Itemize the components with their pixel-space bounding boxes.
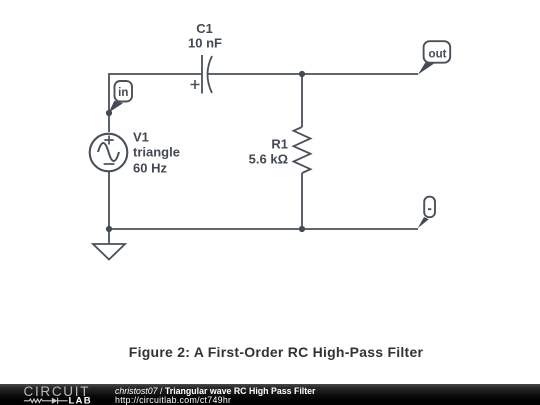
svg-text:C1: C1: [196, 21, 213, 36]
junction node dots: [106, 71, 305, 232]
flag: out: [418, 41, 450, 74]
wire: resistor branch bottom: [301, 173, 303, 229]
node: resistor top: [299, 71, 305, 77]
voltage source V1: [90, 134, 128, 172]
footer bar: [0, 384, 540, 405]
svg-text:60 Hz: 60 Hz: [133, 160, 167, 175]
capacitor C1: [191, 55, 213, 94]
wire: resistor branch top: [301, 74, 303, 127]
flag: in: [109, 81, 132, 113]
node: ground junction: [106, 226, 112, 232]
node: resistor bottom: [299, 226, 305, 232]
resistor R1: [294, 127, 311, 173]
svg-text:triangle: triangle: [133, 145, 180, 160]
CircuitLab logo: [0, 378, 110, 405]
svg-text:V1: V1: [133, 130, 149, 145]
svg-text:10 nF: 10 nF: [188, 36, 222, 51]
wire: bottom rail: [109, 228, 418, 230]
svg-text:R1: R1: [271, 137, 288, 152]
ground: [93, 229, 125, 260]
caption: [0, 344, 540, 360]
svg-text:5.6 kΩ: 5.6 kΩ: [249, 152, 288, 167]
wire: top rail right segment (capacitor to out pointer): [208, 73, 418, 75]
node: in tap: [106, 110, 112, 116]
flag: - (minus): [418, 197, 435, 229]
svg-text:LAB: LAB: [69, 395, 92, 405]
svg-text:out: out: [429, 48, 447, 60]
wire: V1 bottom to ground rail: [108, 172, 110, 229]
wire: top rail left segment (corner to capacitor): [109, 74, 201, 132]
svg-text:in: in: [118, 87, 128, 99]
